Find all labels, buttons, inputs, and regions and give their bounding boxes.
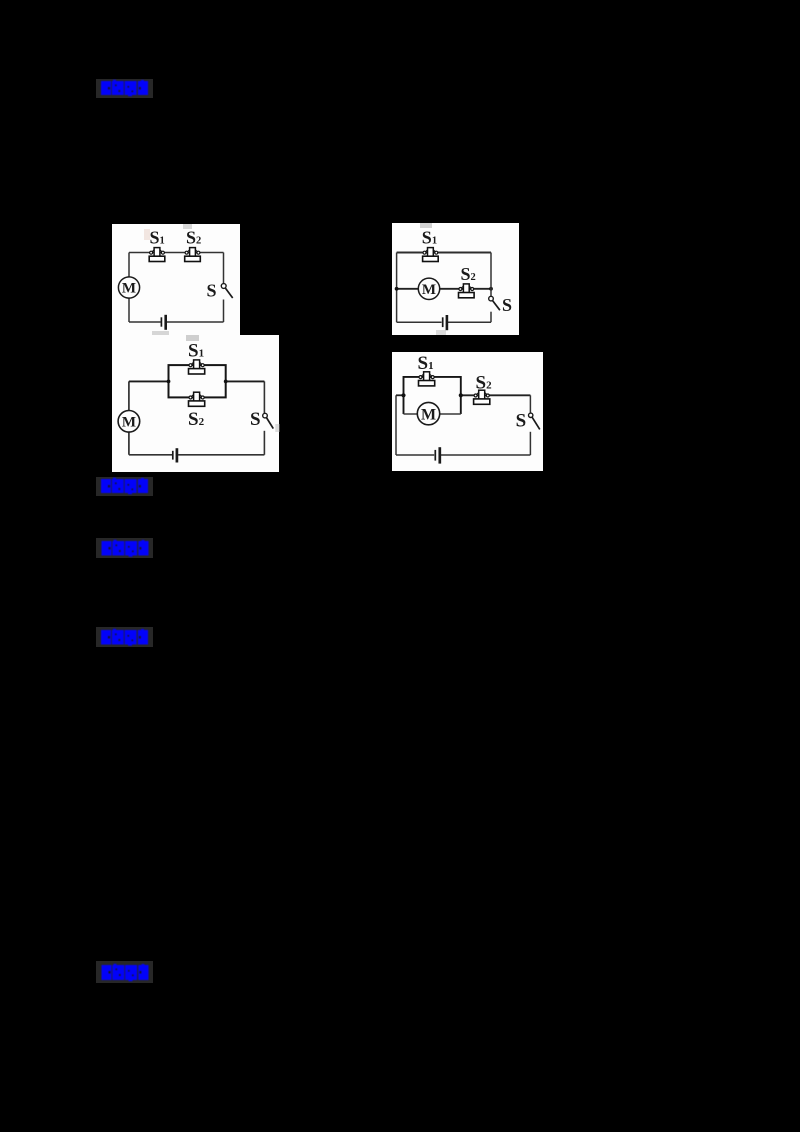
wire D bottom	[396, 454, 530, 456]
scan smudge A top	[183, 224, 192, 229]
svg-text:S: S	[207, 281, 217, 301]
wire B right lower	[490, 312, 492, 323]
wire C middle left	[129, 380, 169, 382]
push button S1 (C)	[189, 360, 205, 374]
wire A left	[128, 253, 130, 323]
wire B left	[396, 253, 398, 323]
answer label block 1	[96, 79, 153, 98]
wire B top	[397, 252, 491, 254]
scan smudge C right	[275, 424, 279, 432]
scan smudge B bottom	[436, 330, 446, 335]
wire D right upper	[529, 395, 531, 413]
svg-text:S: S	[250, 409, 261, 430]
svg-text:M: M	[122, 415, 136, 431]
wire D box bottom branch	[404, 413, 461, 415]
wire C right upper	[263, 381, 265, 413]
push button S2 (D)	[474, 390, 490, 404]
battery (D)	[435, 447, 440, 463]
answer label block 3	[96, 538, 153, 558]
node D left	[401, 393, 405, 397]
scan smudge A pink	[144, 229, 150, 240]
motor M (C)	[118, 411, 140, 433]
figure panel A background	[112, 224, 240, 335]
svg-text:S: S	[502, 295, 512, 315]
scan smudge A bottom	[152, 331, 169, 335]
push button S2 (C)	[189, 392, 205, 406]
wire A right lower	[223, 300, 225, 323]
wire B bottom	[397, 321, 491, 323]
node B left	[395, 287, 399, 291]
switch S (B)	[489, 296, 500, 310]
figure panel D background	[392, 352, 543, 471]
battery (A)	[161, 315, 165, 330]
wire D mid left stub	[396, 394, 404, 396]
wire C bottom	[129, 454, 265, 456]
push button S1 (D)	[419, 372, 435, 386]
push button S2 (A)	[185, 248, 201, 262]
wire A bottom	[129, 321, 224, 323]
parallel box D	[404, 377, 461, 414]
motor M (A)	[118, 277, 139, 298]
wire C left vertical	[128, 381, 130, 454]
push button S1 (B)	[423, 248, 439, 262]
svg-text:M: M	[122, 281, 136, 297]
svg-text:S: S	[516, 410, 527, 431]
switch S (A)	[221, 284, 232, 298]
switch S (D)	[529, 413, 540, 429]
answer label block 5	[96, 961, 153, 983]
switch S (C)	[263, 413, 274, 428]
parallel box C	[169, 365, 226, 397]
svg-text:M: M	[421, 406, 436, 423]
node C right	[224, 380, 228, 384]
node D right	[459, 393, 463, 397]
wire D right lower	[529, 432, 531, 455]
motor M (D)	[417, 402, 439, 424]
battery (C)	[173, 448, 177, 462]
figure panel B background	[392, 223, 519, 335]
wire B right upper	[490, 253, 492, 297]
answer label block 2	[96, 477, 153, 496]
node C left	[167, 380, 171, 384]
battery (B)	[443, 315, 447, 330]
wire A top	[129, 252, 224, 254]
wire D left vertical	[395, 395, 397, 455]
wire B middle branch	[397, 288, 491, 290]
answer label block 4	[96, 627, 153, 647]
scan smudge C top	[186, 335, 199, 341]
motor M (B)	[418, 278, 439, 299]
node B right	[489, 287, 493, 291]
wire C middle right	[226, 380, 265, 382]
wire A right upper	[223, 253, 225, 284]
push button S2 (B)	[459, 284, 475, 298]
wire C right lower	[263, 431, 265, 455]
push button S1 (A)	[149, 248, 165, 262]
wire D mid right	[461, 394, 531, 396]
svg-text:M: M	[422, 282, 436, 298]
scan smudge B top	[420, 223, 432, 228]
figure panel C background	[112, 335, 279, 472]
